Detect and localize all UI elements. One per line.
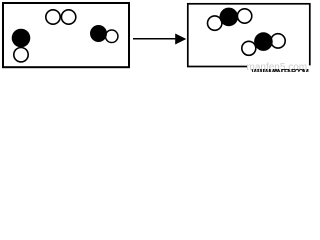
molecule B white atom 1 [46, 10, 60, 24]
watermark white backing [247, 65, 312, 73]
right box (products) [188, 4, 310, 67]
arrow head [175, 34, 186, 45]
product 2 white atom right [271, 34, 285, 48]
molecule C black atom [90, 25, 107, 42]
product 1 black atom [220, 8, 239, 27]
molecule A white atom [14, 48, 28, 62]
molecule C white atom [105, 30, 118, 43]
arrow shaft [133, 38, 177, 40]
molecule A black atom [12, 29, 31, 48]
left box (reactants) [3, 3, 129, 67]
svg-text:WWW.MANFEN5.COM: WWW.MANFEN5.COM [252, 68, 310, 72]
product 2 white atom left [242, 41, 256, 55]
product 2 black atom [254, 32, 273, 51]
product 1 white atom left [208, 16, 222, 30]
molecule B white atom 2 [61, 10, 75, 24]
product 1 white atom right [237, 9, 251, 23]
